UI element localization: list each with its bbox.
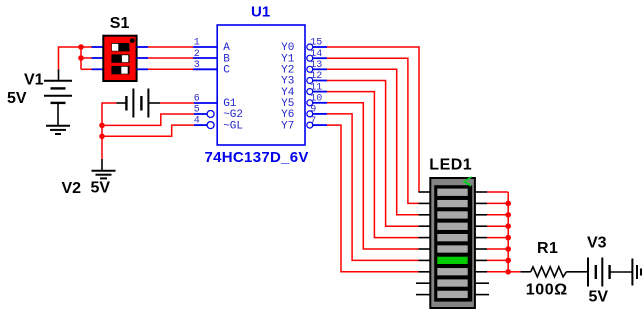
svg-text:5: 5 [194,105,200,116]
green polarity chevron [464,177,472,186]
battery V2 (horizontal) [117,89,161,118]
wire S1 right stubs (blue) [137,47,149,69]
wire bus vertical [507,192,509,272]
svg-text:U1: U1 [251,3,270,20]
wire branch to S1 row2 [81,57,92,59]
battery V1 [44,70,72,126]
ground under V2 wire [92,159,116,178]
wire Y0 to LED pin1 [327,47,419,192]
wire V1 top to S1 row1 [59,47,92,71]
wire Y4 to LED pin5 [327,92,419,238]
svg-text:V3: V3 [587,235,607,252]
svg-text:Y0: Y0 [281,42,294,54]
wire V2 right to G1 pin (red) [160,102,194,104]
svg-text:S1: S1 [110,15,130,32]
svg-text:Y4: Y4 [281,87,295,99]
svg-text:C: C [223,65,230,77]
wire Y1 to LED pin2 [327,58,419,203]
wire ~GL stub (blue) [194,124,207,126]
LED bar graph LED1 [430,178,475,308]
wire Y3 to LED pin4 [327,81,419,227]
wire Y7 to LED pin8 [327,125,419,272]
wire U1 G1 stub (blue) [194,102,217,104]
wire Y5 to LED pin6 [327,103,419,249]
ground right of V3 (rotated) [632,259,641,286]
svg-text:Y7: Y7 [281,120,294,132]
wire S1 to U1 rows 1-3 (red) [148,47,193,69]
bubbles Y0-Y7 [307,44,313,128]
wire LED right pins to bus (red) [487,192,508,272]
svg-text:Y6: Y6 [281,109,294,121]
LED1 pin stubs left [416,192,431,295]
switch S1 [103,36,136,81]
node bus junction dots [505,201,511,275]
wire ~GL branch (red) [102,125,194,136]
svg-text:6: 6 [194,93,200,104]
resistor R1 [521,267,588,277]
wire ~G2 stub (blue) [194,113,207,115]
node junction dot wire5 [99,123,105,129]
op IC U1 body [217,25,305,145]
node junction dot wire4 [99,134,105,140]
node junction dot row1 [78,44,84,50]
wire Y output stubs (blue) [312,47,327,125]
svg-text:5V: 5V [91,180,111,197]
node junction dot row2 [78,55,84,61]
ground under V1 [46,126,70,134]
svg-text:5V: 5V [589,289,609,306]
svg-text:4: 4 [194,116,200,127]
svg-text:2: 2 [194,49,200,60]
svg-text:~G2: ~G2 [223,109,243,121]
wire Y2 to LED pin3 [327,69,419,215]
svg-text:Y2: Y2 [281,65,294,77]
svg-text:3: 3 [194,60,200,71]
wire ~G2 branch (red) [102,114,194,125]
wire V2 left down to ground (red) [102,103,117,159]
svg-text:1: 1 [194,38,200,49]
svg-text:LED1: LED1 [429,157,472,174]
wire Y6 to LED pin7 [327,114,419,261]
svg-text:V2: V2 [62,180,82,197]
wire branch to S1 row3 [81,68,92,70]
svg-text:5V: 5V [7,90,27,107]
wire vertical branch left of S1 [80,47,82,69]
bubble pin 5 [207,111,214,118]
wire bus to R1 (red) [508,271,520,273]
battery V3 (horizontal) [588,258,632,287]
wire U1 input pin stubs rows 1-3 (blue) [193,47,217,69]
LED1 pin stubs right [475,192,489,295]
svg-text:74HC137D_6V: 74HC137D_6V [205,149,309,166]
bubble pin 4 [207,122,214,129]
svg-text:V1: V1 [24,72,44,89]
svg-text:R1: R1 [537,240,558,257]
svg-text:100Ω: 100Ω [526,281,568,298]
svg-text:A: A [223,42,230,54]
wire S1 left pin stubs (blue) [92,47,105,69]
svg-text:~GL: ~GL [223,120,243,132]
